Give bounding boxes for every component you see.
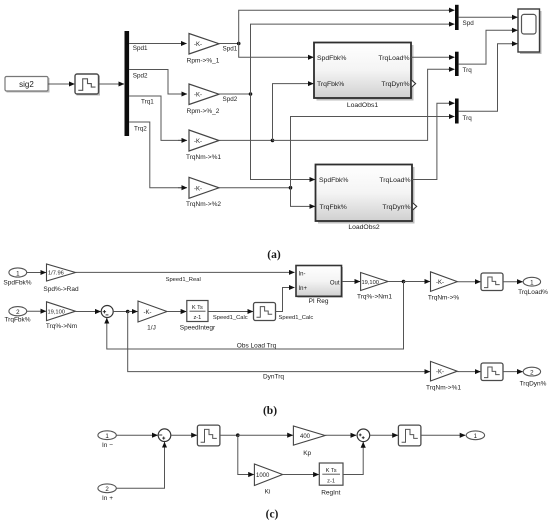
- svg-text:Trq: Trq: [463, 115, 473, 122]
- svg-text:SpdFbk%: SpdFbk%: [3, 280, 31, 287]
- svg-text:1/J: 1/J: [147, 324, 156, 331]
- wire gain to rate B3: [457, 371, 480, 373]
- subsystem LoadObs1: [314, 43, 416, 110]
- wire LoadObs2 TrqLoad% to mux Trq lower in1: [412, 103, 449, 179]
- input port 2 TrqFbk%: [4, 307, 30, 324]
- wire Kp to sum 2: [325, 434, 356, 436]
- svg-text:In-: In-: [299, 271, 306, 277]
- output port 2 TrqDyn%: [520, 367, 547, 387]
- svg-text:Spd1: Spd1: [223, 45, 238, 52]
- wire port2 to gain Trq%->Nm: [27, 310, 46, 312]
- svg-text:Speed1_Calc: Speed1_Calc: [213, 315, 248, 321]
- node Trq1 junction: [271, 139, 275, 143]
- wire demux out Spd1: [129, 44, 186, 53]
- svg-text:SpeedIntegr: SpeedIntegr: [180, 324, 216, 331]
- wire rate B2 to outport 1: [503, 281, 523, 283]
- mux Trq lower: [455, 99, 472, 124]
- svg-text:Speed1_Real: Speed1_Real: [166, 277, 201, 283]
- svg-text:2: 2: [105, 486, 109, 493]
- wire Spd1 to mux Spd in1: [239, 10, 449, 43]
- svg-text:Kp: Kp: [303, 450, 311, 457]
- svg-text:-K-: -K-: [436, 280, 444, 286]
- rate transition block C2: [398, 425, 421, 446]
- wire Trq2 to mux Trq lower in2: [291, 117, 450, 188]
- svg-text:Trq1: Trq1: [141, 99, 154, 106]
- wire DynTrq from error junction: [128, 312, 430, 381]
- svg-text:Trq%->Nm: Trq%->Nm: [46, 323, 77, 330]
- svg-text:z-1: z-1: [327, 478, 335, 484]
- wire junction down to gain Ki: [238, 435, 249, 474]
- node error junction (c): [236, 433, 240, 437]
- svg-text:z-1: z-1: [193, 315, 201, 321]
- rate transition block B3: [481, 363, 503, 381]
- rate transition block C1: [197, 425, 220, 446]
- svg-text:LoadObs1: LoadObs1: [347, 102, 379, 109]
- wire Trq2 to LoadObs2 TrqFbk%: [291, 188, 301, 207]
- wire port2 to sum bottom: [116, 447, 164, 489]
- svg-text:Ki: Ki: [265, 489, 271, 496]
- svg-text:Trq: Trq: [463, 67, 473, 74]
- gain Ki 1000: [254, 464, 282, 496]
- svg-text:19,100: 19,100: [362, 280, 379, 286]
- svg-text:LoadObs2: LoadObs2: [348, 224, 380, 231]
- wire port1 to sum: [116, 434, 157, 436]
- node Spd1 junction: [237, 42, 241, 46]
- wire gain4 out to junction: [219, 187, 291, 189]
- svg-text:SpdFbk%: SpdFbk%: [317, 55, 346, 62]
- svg-text:Spd%->Rad: Spd%->Rad: [43, 286, 79, 293]
- svg-text:1: 1: [16, 270, 20, 277]
- wire rate B1 to PI Reg In+, label Speed1_Calc: [276, 288, 314, 321]
- wire Trq1 to mux Trq upper in2: [273, 69, 450, 140]
- input port 1 In-: [98, 431, 116, 449]
- wire gain to sum: [76, 311, 101, 313]
- wire demux out Trq1: [129, 96, 187, 140]
- gain TrqNm->%2 (a): [186, 177, 221, 208]
- wire rate C2 to outport: [421, 434, 465, 436]
- wire sum 2 to rate C2: [370, 434, 398, 436]
- discrete integrator SpeedIntegr: [180, 301, 216, 332]
- svg-text:-K-: -K-: [194, 139, 202, 145]
- wire Trq1 to LoadObs1 TrqFbk%: [273, 84, 301, 141]
- svg-text:TrqLoad%: TrqLoad%: [518, 289, 548, 296]
- wire rate C1 to junction: [220, 434, 238, 436]
- sum junction (b): [101, 306, 113, 318]
- wire 1/J to SpeedIntegr: [167, 311, 186, 313]
- gain Trq%->Nm: [46, 302, 77, 330]
- svg-text:-K-: -K-: [194, 93, 202, 99]
- output port 1 (c): [466, 431, 484, 440]
- gain Trq%->Nm1: [357, 273, 392, 301]
- svg-text:Obs Load Trq: Obs Load Trq: [237, 342, 277, 349]
- gain Rpm->%_2: [187, 84, 238, 115]
- svg-text:In +: In +: [102, 495, 113, 502]
- gain TrqNm->%1 (a): [186, 130, 221, 161]
- svg-text:-K-: -K-: [436, 370, 444, 376]
- wire SpeedIntegr to rate transition, label Speed1_Calc: [208, 312, 253, 321]
- wire PI Reg Out to gain Trq%->Nm1: [342, 281, 360, 283]
- svg-text:TrqNm->%2: TrqNm->%2: [186, 201, 221, 208]
- wire mux Trq upper to scope in2: [459, 30, 512, 64]
- svg-text:(a): (a): [267, 249, 281, 261]
- svg-text:TrqNm->%1: TrqNm->%1: [186, 154, 221, 161]
- demux bar: [125, 31, 130, 136]
- output port 1 TrqLoad%: [518, 277, 548, 295]
- svg-text:TrqDyn%: TrqDyn%: [381, 81, 409, 88]
- node Trq2 junction: [289, 186, 293, 190]
- wire LoadObs1 TrqLoad% to mux Trq upper in1: [411, 56, 454, 58]
- svg-text:Out: Out: [330, 280, 340, 286]
- svg-text:19,100: 19,100: [48, 310, 65, 316]
- svg-text:Spd: Spd: [463, 20, 475, 27]
- svg-text:Spd2: Spd2: [223, 96, 238, 103]
- svg-text:-K-: -K-: [194, 42, 202, 48]
- subsystem LoadObs2: [316, 165, 417, 232]
- node Spd2 junction: [249, 92, 253, 96]
- subsystem PI Reg: [296, 266, 343, 306]
- svg-text:Spd2: Spd2: [133, 72, 148, 79]
- gain Spd%->Rad: [43, 264, 79, 293]
- wire gain to junction: [388, 281, 404, 283]
- svg-text:TrqDyn%: TrqDyn%: [382, 204, 410, 211]
- wire gain3 out to junction: [219, 139, 273, 141]
- wire gain2 out to junction: [219, 93, 251, 95]
- gain 1/J: [138, 301, 167, 331]
- svg-text:TrqLoad%: TrqLoad%: [379, 177, 410, 184]
- input port 1 SpdFbk%: [3, 268, 31, 287]
- wire mux Trq lower to scope in3: [459, 44, 512, 112]
- svg-text:(b): (b): [263, 405, 277, 417]
- wire gain to rate B2: [457, 281, 480, 283]
- svg-text:K Ts: K Ts: [192, 305, 203, 311]
- wire port1 to gain Spd%->Rad: [27, 272, 46, 274]
- svg-text:TrqFbk%: TrqFbk%: [317, 81, 344, 88]
- mux Trq upper: [455, 52, 472, 76]
- rate transition block B1: [254, 303, 276, 321]
- source block sig2: [5, 77, 50, 93]
- mux Spd: [455, 5, 474, 30]
- svg-text:SpdFbk%: SpdFbk%: [319, 177, 348, 184]
- sum 2 (c): [357, 429, 370, 442]
- wire demux out Trq2: [129, 122, 187, 188]
- wire rate B3 to outport 2: [503, 371, 523, 373]
- svg-text:In+: In+: [299, 286, 308, 292]
- svg-text:Rpm->%_2: Rpm->%_2: [187, 108, 220, 115]
- svg-text:Spd1: Spd1: [133, 45, 148, 52]
- wire Spd2 to LoadObs2 SpdFbk%: [251, 94, 301, 180]
- rate transition block B2: [481, 273, 503, 291]
- svg-text:2: 2: [16, 309, 20, 316]
- node torque junction (b): [402, 280, 406, 284]
- svg-text:TrqFbk%: TrqFbk%: [4, 316, 30, 323]
- svg-text:Speed1_Calc: Speed1_Calc: [279, 315, 314, 321]
- svg-text:400: 400: [300, 434, 311, 440]
- svg-text:RegInt: RegInt: [321, 490, 340, 497]
- svg-text:1/7.96: 1/7.96: [48, 271, 64, 277]
- wire rate transition to demux: [99, 83, 125, 85]
- gain Kp 400: [293, 426, 325, 457]
- gain TrqNm->%: [428, 272, 460, 302]
- svg-text:In −: In −: [102, 442, 113, 449]
- svg-text:2: 2: [530, 369, 534, 376]
- svg-text:1000: 1000: [256, 473, 270, 479]
- svg-text:1: 1: [530, 280, 534, 287]
- input port 2 In+: [98, 484, 116, 502]
- wire sum to gain 1/J: [113, 311, 128, 313]
- gain TrqNm->%1 (b): [426, 361, 461, 391]
- wire Obs Load Trq feedback: [107, 282, 404, 350]
- wire gain1 out to junction: [219, 43, 239, 45]
- wire Spd1 to LoadObs1 SpdFbk%: [239, 44, 300, 58]
- wire sum to rate C1: [171, 434, 197, 436]
- wire Speed1_Real to PI Reg In-: [76, 272, 295, 283]
- discrete integrator RegInt: [319, 463, 343, 497]
- svg-text:sig2: sig2: [19, 80, 34, 89]
- svg-text:DynTrq: DynTrq: [263, 373, 284, 380]
- gain Rpm->%_1: [187, 34, 238, 65]
- svg-text:K Ts: K Ts: [326, 468, 337, 474]
- rate transition block A: [75, 74, 100, 96]
- wire junction to gain TrqNm->%: [404, 281, 430, 283]
- svg-text:TrqNm->%: TrqNm->%: [428, 295, 460, 302]
- wire sig2 to rate transition: [48, 83, 75, 85]
- wire RegInt to sum 2 bottom: [343, 447, 363, 475]
- svg-text:(c): (c): [266, 508, 279, 520]
- svg-text:-K-: -K-: [144, 310, 152, 316]
- sum 1 (c): [158, 429, 171, 442]
- svg-text:Trq%->Nm1: Trq%->Nm1: [357, 293, 392, 300]
- wire junction to gain Kp: [238, 434, 293, 436]
- svg-text:TrqDyn%: TrqDyn%: [520, 381, 547, 388]
- wire Ki to RegInt: [283, 474, 319, 476]
- svg-text:PI Reg: PI Reg: [309, 298, 329, 305]
- svg-text:Trq2: Trq2: [134, 126, 147, 133]
- wire Spd2 to mux Spd in2: [251, 24, 450, 94]
- wire mux Spd to scope in1: [459, 16, 518, 18]
- svg-text:TrqFbk%: TrqFbk%: [320, 204, 347, 211]
- scope block: [518, 9, 542, 54]
- svg-text:TrqLoad%: TrqLoad%: [378, 55, 409, 62]
- svg-text:1: 1: [474, 433, 478, 440]
- svg-text:Rpm->%_1: Rpm->%_1: [187, 58, 220, 65]
- wire demux out Spd2: [129, 70, 187, 95]
- svg-text:1: 1: [105, 433, 109, 440]
- svg-text:TrqNm->%1: TrqNm->%1: [426, 385, 461, 392]
- node speed error junction: [126, 310, 130, 314]
- svg-text:-K-: -K-: [194, 186, 202, 192]
